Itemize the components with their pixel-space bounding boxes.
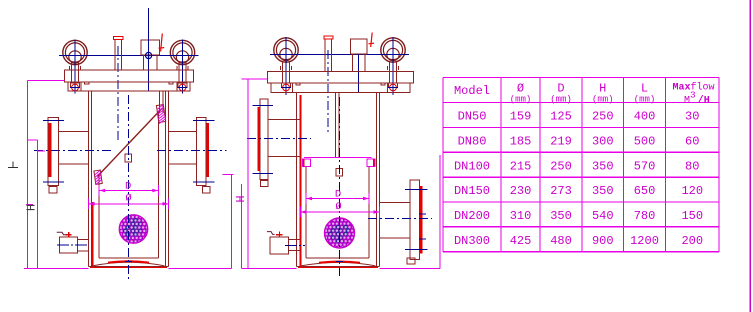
drain fitting left vessel — [60, 237, 78, 253]
svg-text:30: 30 — [685, 110, 699, 124]
svg-text:Ø: Ø — [335, 201, 341, 213]
top fitting box U1 — [141, 40, 160, 55]
eyebolt L2 ring — [170, 40, 194, 64]
left nozzle bolt lines — [43, 121, 64, 183]
eyebolt R2 nut — [388, 83, 398, 91]
svg-text:125: 125 — [550, 110, 572, 124]
svg-text:H: H — [234, 195, 248, 202]
top fitting centerline (tall navy) — [148, 8, 150, 91]
inlet flange bottom square — [261, 181, 268, 187]
svg-text:DN80: DN80 — [458, 134, 487, 148]
eyebolt L2 crosshair — [182, 40, 184, 94]
vent pipe left vessel — [115, 40, 121, 71]
right border line — [749, 0, 751, 312]
upper internal pipe — [160, 91, 164, 113]
dimension dia right vessel — [300, 207, 379, 218]
dished bottom — [89, 261, 169, 267]
hatch section top-right — [156, 105, 165, 124]
basket support tab left — [303, 159, 311, 167]
svg-text:200: 200 — [681, 234, 703, 248]
svg-text:D: D — [125, 181, 131, 193]
vent pipe centerline — [117, 46, 119, 140]
eyebolt L1 ring — [63, 40, 87, 64]
vent pipe cap right — [324, 36, 333, 39]
red valve symbol — [159, 34, 165, 52]
svg-text:150: 150 — [681, 209, 703, 223]
svg-text:(mm): (mm) — [510, 95, 532, 105]
main centerline right vessel — [339, 97, 341, 279]
table grid — [443, 78, 719, 252]
inlet flange face — [257, 107, 260, 171]
dim tick far left — [8, 162, 18, 168]
left nozzle pipe — [59, 132, 89, 165]
drain pipe right vessel — [289, 239, 301, 250]
outlet bolt lines — [405, 190, 428, 250]
eyebolt L1 shank — [70, 62, 81, 83]
dimension L line left side — [27, 81, 64, 269]
boss left right-vessel — [293, 83, 301, 93]
eyebolt L2 nut — [178, 83, 188, 91]
eyebolt L2 shank — [177, 62, 188, 83]
svg-text:120: 120 — [681, 184, 703, 198]
left nozzle bottom square — [49, 187, 57, 193]
L-line right of right vessel — [439, 155, 441, 268]
svg-text:L: L — [641, 82, 648, 96]
magenta hline to flange right vessel — [242, 78, 268, 80]
dimension H bracket left — [26, 140, 45, 268]
table row DN50 — [458, 110, 700, 124]
eyebolt R1 shank — [281, 62, 292, 83]
right nozzle flange face — [206, 123, 209, 177]
svg-text:650: 650 — [634, 184, 656, 198]
top fitting connectors — [144, 55, 158, 70]
svg-text:60: 60 — [685, 134, 699, 148]
drain hook right vessel — [267, 232, 275, 235]
baseline right vessel — [242, 267, 297, 269]
svg-text:310: 310 — [510, 209, 532, 223]
eyebolt R1 ring — [274, 38, 298, 62]
outlet pipe — [380, 203, 411, 239]
right nozzle pipe — [169, 132, 197, 165]
drain centerline right vessel — [285, 244, 305, 246]
svg-text:H: H — [599, 82, 606, 96]
svg-text:350: 350 — [592, 159, 614, 173]
left nozzle flange face — [49, 123, 52, 177]
right nozzle bolt lines — [193, 121, 215, 183]
svg-text:250: 250 — [550, 159, 572, 173]
svg-text:D: D — [557, 82, 564, 96]
outlet centerline — [368, 217, 432, 219]
svg-text:Ø: Ø — [125, 193, 131, 205]
basket left wall — [98, 174, 100, 258]
outlet nozzle flange right vessel — [410, 180, 420, 260]
basket handle right vessel — [336, 169, 343, 177]
eyebolt common centerline — [59, 55, 199, 57]
svg-text:273: 273 — [550, 184, 572, 198]
shell right wall right vessel — [376, 93, 379, 267]
drain fitting right vessel — [270, 237, 289, 254]
vent pipe right vessel — [325, 40, 332, 72]
hatch section bottom-left — [94, 170, 102, 184]
strainer basket ball L — [119, 215, 148, 244]
left nozzle centerline — [34, 149, 111, 151]
body flange plate — [68, 82, 190, 91]
svg-text:159: 159 — [510, 110, 532, 124]
eyebolt R2 crosshair — [392, 37, 394, 95]
drain plus right vessel — [276, 232, 283, 238]
basket diagonal screen — [97, 109, 162, 177]
basket right vessel — [304, 157, 372, 258]
table row DN150 — [454, 184, 703, 198]
dimension H right vessel — [241, 184, 243, 268]
cover flange plate — [65, 70, 194, 82]
svg-text:H: H — [25, 204, 39, 211]
right nozzle centerline — [157, 149, 227, 151]
shell right wall — [166, 91, 169, 266]
square under outlet flange — [407, 258, 415, 264]
drain plus mark — [66, 232, 72, 238]
svg-text:480: 480 — [550, 234, 572, 248]
right nozzle flange — [197, 118, 206, 186]
baseline left vessel — [24, 267, 89, 269]
shell left wall — [89, 91, 93, 266]
main centerline left vessel — [128, 95, 130, 279]
svg-text:DN150: DN150 — [454, 184, 490, 198]
svg-text:250: 250 — [592, 110, 614, 124]
inlet bolt lines — [253, 106, 274, 174]
boss right right-vessel — [381, 83, 388, 93]
svg-text:1200: 1200 — [630, 234, 659, 248]
svg-text:(mm): (mm) — [550, 95, 572, 105]
svg-text:215: 215 — [510, 159, 532, 173]
eyebolt R1 crosshair — [285, 37, 287, 95]
eyebolt R2 ring — [381, 38, 405, 62]
basket handle — [125, 154, 132, 162]
shell left wall right vessel — [297, 93, 301, 267]
table header row — [454, 82, 715, 107]
basket right wall — [157, 112, 159, 258]
left nozzle flange — [48, 118, 59, 186]
inlet centerline — [247, 137, 311, 139]
svg-text:570: 570 — [634, 159, 656, 173]
vent pipe cap — [114, 37, 123, 40]
svg-text:425: 425 — [510, 234, 532, 248]
dimension line x248 — [247, 79, 249, 268]
table row DN80 — [458, 134, 700, 148]
svg-text:400: 400 — [634, 110, 656, 124]
basket bottom — [99, 257, 158, 259]
svg-text:Ø: Ø — [517, 82, 524, 96]
outlet flange face — [420, 186, 423, 254]
flange boss left — [81, 82, 89, 91]
svg-text:80: 80 — [685, 159, 699, 173]
position marker circle — [146, 52, 152, 58]
body flange right vessel — [271, 83, 410, 93]
top fitting box right vessel — [351, 39, 368, 54]
dimension D left vessel — [99, 185, 158, 196]
svg-text:DN50: DN50 — [458, 110, 487, 124]
flange boss right — [169, 82, 177, 91]
svg-text:DN200: DN200 — [454, 209, 490, 223]
svg-text:Model: Model — [454, 84, 490, 98]
drain centerline — [57, 244, 89, 246]
svg-text:D: D — [335, 189, 341, 201]
svg-text:540: 540 — [592, 209, 614, 223]
eyebolt common centerline right vessel — [270, 54, 409, 56]
svg-text:219: 219 — [550, 134, 572, 148]
drain pipe — [78, 239, 89, 251]
top fitting connectors right — [353, 54, 366, 72]
svg-text:350: 350 — [550, 209, 572, 223]
dimension dia left vessel — [89, 199, 169, 210]
svg-text:(mm): (mm) — [592, 95, 614, 105]
strainer basket ball R — [325, 218, 356, 248]
inlet pipe — [268, 120, 300, 157]
right nozzle bottom square — [203, 187, 211, 193]
svg-text:DN100: DN100 — [454, 159, 490, 173]
dim tick right of left vessel — [223, 174, 234, 268]
red valve symbol right vessel — [369, 33, 375, 48]
eyebolt R2 shank — [388, 62, 399, 83]
svg-text:300: 300 — [592, 134, 614, 148]
table row DN100 — [454, 159, 699, 173]
svg-text:350: 350 — [592, 184, 614, 198]
svg-text:900: 900 — [592, 234, 614, 248]
dished bottom right vessel — [297, 262, 380, 268]
dimension D right vessel — [306, 193, 369, 204]
eyebolt R1 nut — [281, 83, 291, 91]
svg-text:(mm): (mm) — [634, 95, 656, 105]
navy dashes right of outlet — [419, 190, 426, 240]
internal center tube right vessel — [335, 93, 339, 158]
svg-text:500: 500 — [634, 134, 656, 148]
svg-text:230: 230 — [510, 184, 532, 198]
drain leader hook — [57, 232, 67, 234]
basket support tab right — [367, 159, 375, 167]
svg-text:780: 780 — [634, 209, 656, 223]
svg-text:DN300: DN300 — [454, 234, 490, 248]
vent pipe centerline right — [327, 50, 329, 135]
table row DN200 — [454, 209, 703, 223]
table row DN300 — [454, 234, 703, 248]
inlet nozzle flange right vessel — [260, 99, 268, 180]
cover flange right vessel — [268, 72, 414, 84]
top fitting centerline right — [358, 54, 360, 93]
eyebolt L1 crosshair — [74, 40, 76, 94]
svg-text:185: 185 — [510, 134, 532, 148]
eyebolt L1 nut — [70, 83, 80, 91]
